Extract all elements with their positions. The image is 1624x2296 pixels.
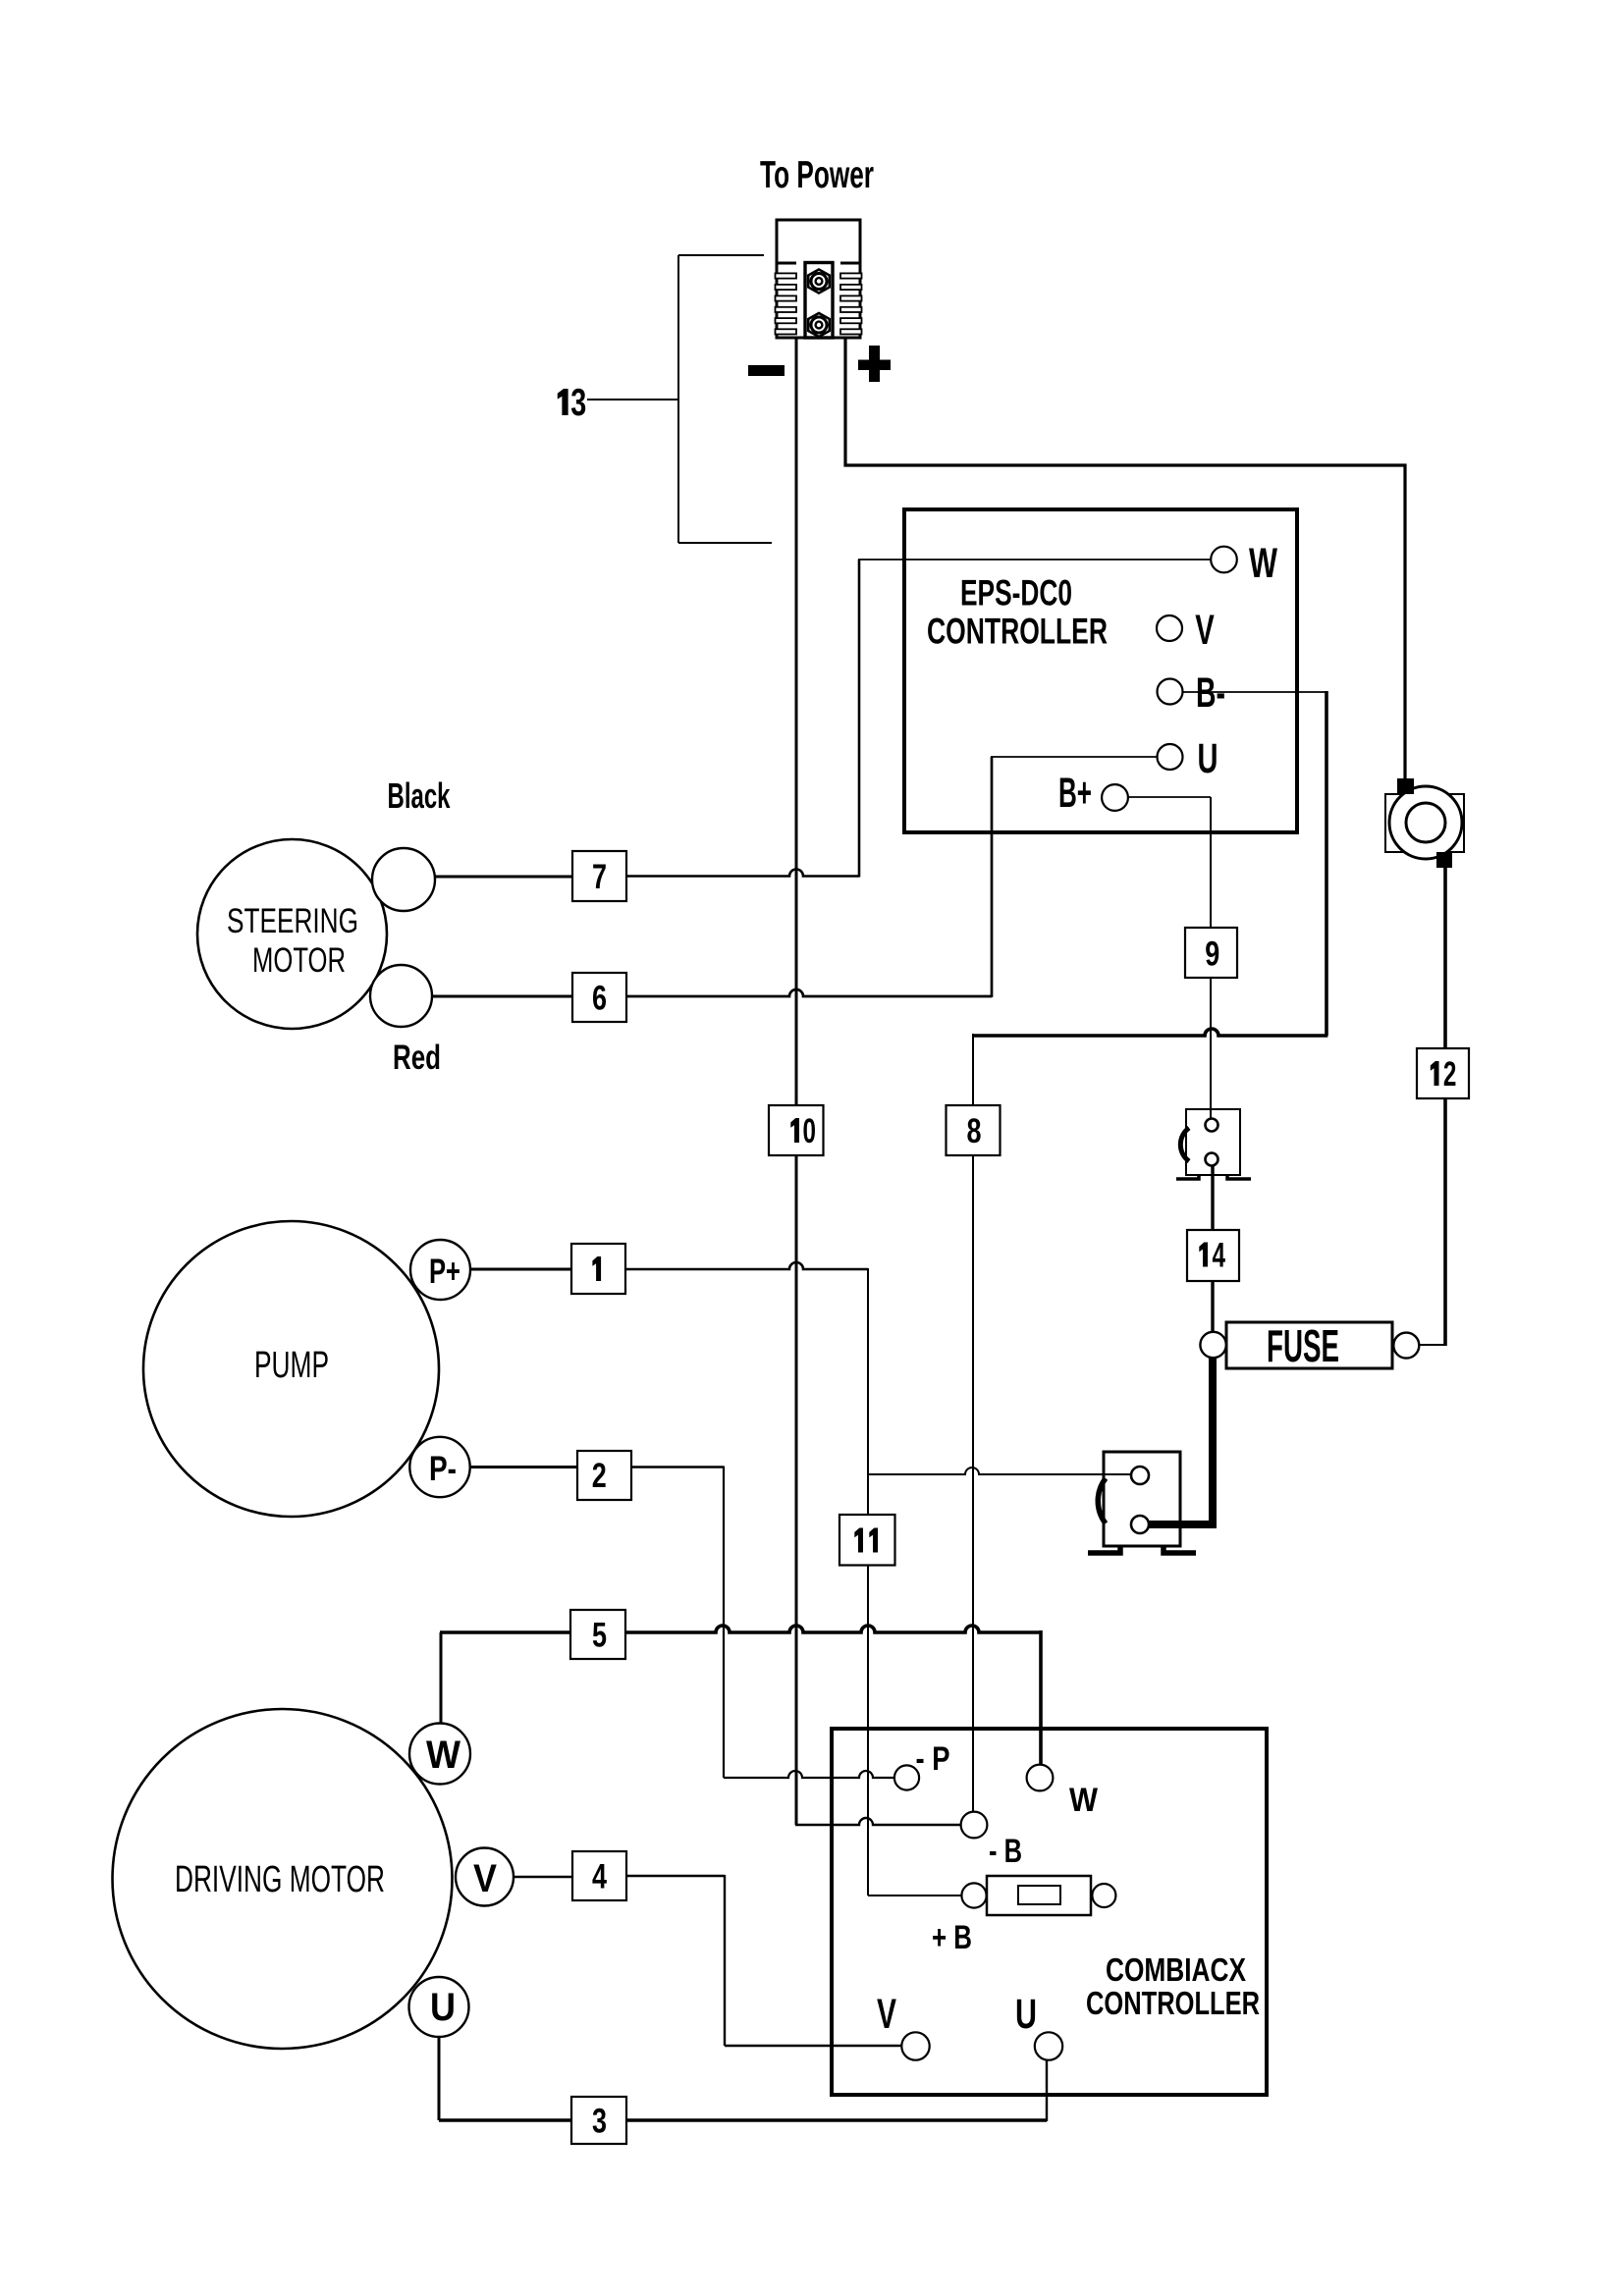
wire minus to -B terminal <box>795 1818 974 1825</box>
svg-text:Black: Black <box>388 775 452 816</box>
svg-text:B-: B- <box>1196 669 1225 717</box>
terminal pump P+ <box>410 1240 470 1300</box>
svg-text:W: W <box>426 1734 460 1777</box>
svg-text:V: V <box>877 1991 896 2038</box>
terminal steering Black <box>372 848 435 911</box>
tag box 8 <box>947 1105 1001 1155</box>
symbol minus <box>748 365 785 376</box>
horn H1 terminal squares <box>1397 778 1414 794</box>
terminal contactor K1 bottom <box>1131 1516 1149 1533</box>
terminal COMBIACX +B <box>961 1883 986 1907</box>
tag box 14 <box>1187 1230 1239 1281</box>
wire thick FUSE to contactor K1 <box>1144 1349 1213 1524</box>
tag box 5 <box>570 1610 625 1659</box>
svg-text:3: 3 <box>570 382 586 424</box>
tag box 10 <box>769 1105 824 1155</box>
contactor K1 feet <box>1088 1546 1120 1553</box>
svg-text:COMBIACX: COMBIACX <box>1106 1951 1246 1988</box>
svg-text:MOTOR: MOTOR <box>252 941 346 980</box>
controller U1 EPS-DC0 box <box>904 509 1297 832</box>
connector J1 teeth right <box>840 273 862 334</box>
wire 13 bracket <box>587 255 772 543</box>
tag box 9 <box>1185 928 1237 978</box>
tag box 2 <box>577 1451 631 1500</box>
svg-text:DRIVING MOTOR: DRIVING MOTOR <box>175 1859 385 1900</box>
svg-text:CONTROLLER: CONTROLLER <box>927 611 1108 651</box>
motor M1 DRIVING MOTOR body <box>113 1709 453 2049</box>
svg-text:7: 7 <box>592 858 607 896</box>
svg-text:2: 2 <box>592 1457 607 1495</box>
wire 2 pump P- to -P <box>470 1466 577 1468</box>
svg-text:0: 0 <box>803 1112 817 1150</box>
terminal driving W <box>409 1724 470 1785</box>
symbol plus <box>858 360 891 371</box>
svg-text:To Power: To Power <box>760 154 874 196</box>
svg-text:U: U <box>430 1986 456 2029</box>
terminal EPS B- <box>1158 679 1183 705</box>
relay K2 feet <box>1176 1174 1199 1179</box>
svg-text:EPS-DC0: EPS-DC0 <box>960 573 1072 614</box>
wire 8 riser to -B <box>972 1034 974 1825</box>
relay K2 small contactor body <box>1186 1109 1240 1175</box>
tag digit 1 <box>592 1256 601 1281</box>
fuse F2 +B fuse symbol <box>987 1876 1091 1915</box>
terminal pump P- <box>409 1437 469 1497</box>
svg-text:+ B: + B <box>932 1919 972 1956</box>
terminal contactor K1 top <box>1131 1467 1149 1484</box>
svg-text:B+: B+ <box>1058 770 1092 817</box>
svg-text:6: 6 <box>592 980 607 1018</box>
tag digit 14 <box>1199 1243 1208 1267</box>
terminal EPS W <box>1211 547 1237 573</box>
terminal relay K2 top <box>1206 1119 1218 1132</box>
horn H1 body <box>1385 786 1464 859</box>
svg-text:4: 4 <box>1212 1237 1225 1275</box>
motor pump body <box>143 1221 439 1517</box>
wire 1 pump P+ riser (tag 11) to +B <box>470 1268 571 1271</box>
svg-text:Red: Red <box>393 1039 441 1077</box>
connector J1 bolt upper <box>808 270 830 294</box>
tag digit 10 <box>790 1118 799 1143</box>
terminal COMBIACX -P <box>894 1765 919 1789</box>
svg-text:2: 2 <box>1443 1055 1457 1094</box>
tag digit 12 <box>1431 1061 1439 1086</box>
terminal driving V <box>456 1848 514 1906</box>
svg-text:4: 4 <box>592 1858 607 1896</box>
terminal FUSE right <box>1393 1333 1419 1359</box>
terminal COMBIACX U <box>1035 2032 1062 2059</box>
terminal EPS U <box>1158 744 1183 770</box>
svg-text:9: 9 <box>1205 935 1219 974</box>
wire branch to contactor K1 coil <box>868 1468 1140 1474</box>
wire 6 steering red to U <box>432 995 572 998</box>
terminal relay K2 bottom <box>1206 1153 1218 1166</box>
wire battery plus to horn <box>845 338 1405 780</box>
svg-text:- B: - B <box>989 1833 1022 1870</box>
wire 14 relay K2 to FUSE <box>1211 1159 1214 1345</box>
svg-text:FUSE: FUSE <box>1267 1320 1339 1371</box>
terminal driving U <box>409 1977 469 2037</box>
svg-text:P+: P+ <box>429 1253 460 1291</box>
svg-text:P-: P- <box>429 1450 457 1488</box>
tag box 4 <box>572 1851 626 1900</box>
controller U2 COMBIACX box <box>832 1729 1267 2095</box>
wire battery minus vertical (tag 10) <box>795 338 798 1825</box>
tag box 7 <box>572 851 626 901</box>
terminal COMBIACX -B <box>961 1812 988 1839</box>
svg-text:3: 3 <box>592 2103 607 2141</box>
svg-text:PUMP: PUMP <box>254 1345 329 1386</box>
svg-text:W: W <box>1069 1782 1099 1819</box>
terminal COMBIACX V <box>901 2032 929 2059</box>
terminal EPS B+ <box>1102 784 1128 811</box>
tag digit 11 <box>854 1528 863 1553</box>
terminal EPS V <box>1157 615 1182 641</box>
svg-text:W: W <box>1249 540 1277 587</box>
svg-text:V: V <box>1195 607 1215 654</box>
svg-text:5: 5 <box>592 1617 607 1655</box>
terminal FUSE left <box>1200 1332 1225 1358</box>
contactor K1 body <box>1104 1452 1180 1546</box>
svg-text:U: U <box>1198 735 1218 782</box>
terminal steering Red <box>370 965 432 1027</box>
contactor K1 bracket <box>1098 1478 1106 1523</box>
wire 5 driving W to COMBIACX W <box>440 1632 443 1754</box>
wire 7 steering black to W <box>435 876 572 879</box>
tag box 12 <box>1417 1048 1469 1098</box>
svg-text:STEERING: STEERING <box>227 902 358 940</box>
relay K2 bracket <box>1180 1128 1189 1161</box>
connector J1 To Power body <box>777 220 860 338</box>
tag box 11 <box>839 1515 895 1566</box>
tag box 3 <box>571 2097 626 2144</box>
wire 12 FUSE to horn <box>1406 1344 1445 1346</box>
svg-text:CONTROLLER: CONTROLLER <box>1086 1985 1260 2021</box>
connector J1 teeth left <box>776 273 797 334</box>
tag box 1 <box>571 1244 625 1294</box>
terminal COMBIACX W <box>1027 1765 1054 1791</box>
svg-text:8: 8 <box>967 1112 982 1150</box>
tag box 6 <box>572 973 626 1022</box>
svg-text:V: V <box>473 1857 497 1900</box>
terminal fuse F2 right <box>1092 1884 1115 1907</box>
wire 4 driving V to COMBIACX V <box>514 1876 572 1879</box>
wire 9 B+ EPS to relay K2 <box>1114 796 1211 798</box>
svg-text:- P: - P <box>916 1740 950 1778</box>
svg-text:U: U <box>1015 1991 1037 2038</box>
fuse F1 FUSE box <box>1226 1322 1392 1368</box>
label 13 <box>558 389 568 415</box>
wire B- EPS to wire 8 riser <box>1169 691 1326 693</box>
motor M2 STEERING MOTOR body <box>197 839 387 1029</box>
wire 3 driving U to COMBIACX U <box>438 2006 441 2120</box>
connector J1 bolt lower <box>808 313 830 337</box>
